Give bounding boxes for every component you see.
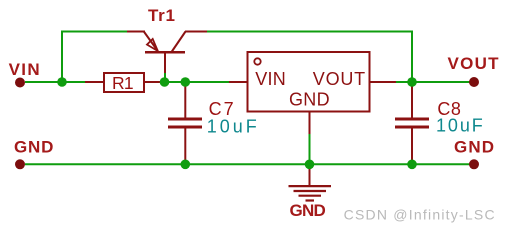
svg-text:10uF: 10uF <box>436 116 483 136</box>
svg-text:Tr1: Tr1 <box>148 6 175 25</box>
svg-text:VOUT: VOUT <box>313 69 365 89</box>
svg-text:GND: GND <box>290 201 326 220</box>
svg-text:VIN: VIN <box>255 69 286 89</box>
svg-text:GND: GND <box>289 89 330 109</box>
svg-text:CSDN @Infinity-LSC: CSDN @Infinity-LSC <box>344 207 495 223</box>
svg-text:VOUT: VOUT <box>448 54 500 73</box>
svg-text:R1: R1 <box>112 73 134 93</box>
svg-text:VIN: VIN <box>9 60 40 79</box>
svg-text:GND: GND <box>14 138 53 157</box>
svg-text:GND: GND <box>454 138 494 157</box>
